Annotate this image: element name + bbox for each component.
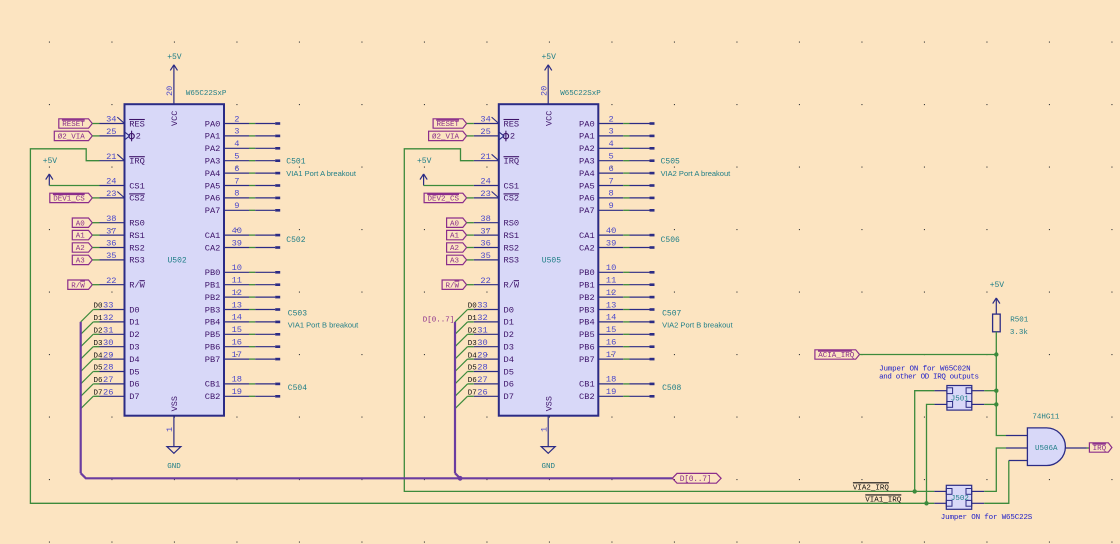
pin 3 PA1 (U502) bbox=[205, 127, 249, 142]
wire stub CB1 (U505) bbox=[623, 383, 654, 386]
svg-text:37: 37 bbox=[106, 226, 116, 236]
svg-text:D2: D2 bbox=[129, 330, 139, 340]
svg-text:26: 26 bbox=[103, 388, 113, 398]
svg-text:VIA1 Port A breakout: VIA1 Port A breakout bbox=[286, 169, 357, 178]
pin 29 D4 (U505) bbox=[474, 350, 514, 365]
pin 40 CA1 (U505) bbox=[579, 226, 623, 241]
svg-text:ACIA_IRQ: ACIA_IRQ bbox=[818, 352, 855, 360]
pin 9 PA7 (U502) bbox=[205, 201, 249, 216]
svg-text:10: 10 bbox=[606, 263, 616, 273]
wire J502 top-right up to gate input 2 bbox=[984, 448, 1006, 491]
svg-text:+5V: +5V bbox=[990, 281, 1005, 290]
svg-text:D2: D2 bbox=[94, 328, 103, 336]
svg-text:D6: D6 bbox=[468, 377, 478, 385]
wire D4 (U502) bbox=[93, 358, 99, 360]
svg-text:IRQ: IRQ bbox=[1093, 445, 1107, 453]
svg-text:U502: U502 bbox=[168, 257, 187, 266]
pin 35 RS3 (U502) bbox=[100, 251, 145, 266]
pin 39 CA2 (U502) bbox=[205, 238, 249, 253]
svg-text:PA5: PA5 bbox=[579, 181, 595, 191]
svg-text:RS2: RS2 bbox=[504, 243, 520, 253]
svg-text:PB6: PB6 bbox=[205, 343, 221, 353]
svg-text:PB0: PB0 bbox=[205, 268, 221, 278]
wire stub PB2 (U502) bbox=[249, 296, 280, 299]
wire RESET to RES (U505) bbox=[467, 123, 474, 125]
svg-text:+5V: +5V bbox=[43, 157, 58, 166]
svg-text:7: 7 bbox=[234, 176, 239, 186]
svg-text:CA1: CA1 bbox=[205, 231, 221, 241]
svg-text:DEV1_CS: DEV1_CS bbox=[53, 196, 85, 204]
wire stub PA5 (U502) bbox=[249, 184, 280, 187]
wire stub PB1 (U502) bbox=[249, 283, 280, 286]
power +5V at CS1 (U502) bbox=[48, 174, 50, 186]
bus entry D2 (U502) bbox=[81, 334, 94, 346]
svg-text:D3: D3 bbox=[129, 343, 139, 353]
svg-text:22: 22 bbox=[106, 276, 116, 286]
pin 29 D4 (U502) bbox=[100, 350, 140, 365]
svg-text:2: 2 bbox=[510, 132, 515, 142]
svg-text:24: 24 bbox=[480, 177, 490, 187]
wire stub CA1 (U502) bbox=[249, 234, 280, 237]
svg-text:D0: D0 bbox=[504, 305, 514, 315]
wire A0 to RS0 (U505) bbox=[467, 222, 474, 224]
wire stub PB6 (U502) bbox=[249, 345, 280, 348]
wire stub PA4 (U502) bbox=[249, 172, 280, 175]
pin 8 PA6 (U502) bbox=[205, 189, 249, 204]
pin 21 IRQ (U505) bbox=[474, 152, 519, 167]
svg-text:VIA2_IRQ: VIA2_IRQ bbox=[853, 484, 890, 492]
jumper J501 body bbox=[947, 386, 972, 411]
svg-text:28: 28 bbox=[103, 363, 113, 373]
global label IRQ bbox=[1089, 443, 1112, 452]
pin 34 RES (U505) bbox=[474, 115, 519, 130]
svg-text:A3: A3 bbox=[450, 258, 460, 266]
svg-text:13: 13 bbox=[232, 300, 242, 310]
svg-text:21: 21 bbox=[480, 152, 490, 162]
svg-text:VCC: VCC bbox=[545, 111, 555, 126]
wire D5 (U505) bbox=[468, 371, 474, 373]
svg-text:D[0..7]: D[0..7] bbox=[423, 317, 455, 325]
wire stub PB3 (U505) bbox=[623, 308, 654, 311]
wire stub CA2 (U502) bbox=[249, 246, 280, 249]
svg-text:39: 39 bbox=[606, 238, 616, 248]
svg-text:PB5: PB5 bbox=[579, 330, 595, 340]
svg-text:PB6: PB6 bbox=[579, 343, 595, 353]
power +5V above U505 bbox=[547, 64, 549, 66]
power +5V above U502 bbox=[173, 64, 175, 66]
pin 24 CS1 (U505) bbox=[474, 177, 519, 192]
svg-text:GND: GND bbox=[167, 463, 181, 471]
svg-text:39: 39 bbox=[232, 238, 242, 248]
pin 11 PB1 (U505) bbox=[579, 276, 623, 291]
pin 35 RS3 (U505) bbox=[474, 251, 519, 266]
bus entry D4 (U502) bbox=[81, 359, 94, 371]
pin 16 PB6 (U505) bbox=[579, 338, 623, 353]
bus entry D5 (U505) bbox=[455, 372, 468, 384]
svg-text:D1: D1 bbox=[504, 318, 514, 328]
pin 25 &#966;2 (U505) bbox=[474, 127, 515, 142]
svg-text:PB4: PB4 bbox=[205, 318, 221, 328]
svg-text:VIA2 Port B breakout: VIA2 Port B breakout bbox=[662, 320, 733, 329]
svg-text:CB2: CB2 bbox=[205, 392, 221, 402]
svg-text:RES: RES bbox=[504, 119, 520, 129]
svg-text:DEV2_CS: DEV2_CS bbox=[428, 196, 460, 204]
svg-text:PB4: PB4 bbox=[579, 318, 595, 328]
pin 5 PA3 (U505) bbox=[579, 152, 623, 167]
svg-text:C503: C503 bbox=[288, 310, 307, 319]
svg-text:D7: D7 bbox=[504, 392, 514, 402]
global label A0 (U502) bbox=[72, 218, 92, 227]
svg-text:PB7: PB7 bbox=[205, 355, 221, 365]
wire D7 (U505) bbox=[468, 395, 474, 397]
bus entry D4 (U505) bbox=[455, 359, 468, 371]
svg-text:18: 18 bbox=[606, 375, 616, 385]
wire D2 (U505) bbox=[468, 333, 474, 335]
wire A2 to RS2 (U502) bbox=[92, 247, 99, 249]
svg-text:6: 6 bbox=[234, 164, 239, 174]
pin 31 D2 (U502) bbox=[100, 326, 140, 341]
power +5V at CS1 (U505) bbox=[423, 174, 425, 186]
power +5V above R501 bbox=[995, 298, 997, 314]
svg-text:D5: D5 bbox=[468, 365, 478, 373]
svg-text:PA0: PA0 bbox=[205, 119, 221, 129]
svg-text:19: 19 bbox=[606, 387, 616, 397]
pin 39 CA2 (U505) bbox=[579, 238, 623, 253]
svg-text:U505: U505 bbox=[542, 257, 561, 266]
svg-text:30: 30 bbox=[477, 338, 487, 348]
svg-text:1: 1 bbox=[539, 427, 549, 432]
pin 1 VSS (U502) bbox=[173, 416, 175, 447]
wire stub PB5 (U505) bbox=[623, 333, 654, 336]
wire A3 to RS3 (U502) bbox=[92, 259, 99, 261]
pin 34 RES (U502) bbox=[100, 115, 145, 130]
svg-text:18: 18 bbox=[232, 375, 242, 385]
svg-text:74HC11: 74HC11 bbox=[1032, 413, 1060, 421]
wire stub CA2 (U505) bbox=[623, 246, 654, 249]
junction VIA2_IRQ bbox=[913, 489, 917, 493]
wire stub PB7 (U505) bbox=[623, 358, 654, 361]
pin 28 D5 (U502) bbox=[100, 363, 140, 378]
svg-text:D1: D1 bbox=[468, 315, 478, 323]
wire stub PB6 (U505) bbox=[623, 345, 654, 348]
pin 37 RS1 (U505) bbox=[474, 226, 519, 241]
svg-text:29: 29 bbox=[477, 350, 487, 360]
wire J501 top-right to rail bbox=[984, 390, 996, 392]
svg-text:RESET: RESET bbox=[437, 121, 460, 129]
svg-text:RS0: RS0 bbox=[129, 219, 145, 229]
svg-text:C506: C506 bbox=[661, 236, 680, 245]
pin 30 D3 (U505) bbox=[474, 338, 514, 353]
wire J501 top-left down to VIA2_IRQ bbox=[915, 391, 935, 492]
pin 33 D0 (U505) bbox=[474, 301, 514, 316]
svg-text:3.3k: 3.3k bbox=[1010, 329, 1029, 337]
wire RESET to RES (U502) bbox=[92, 123, 99, 125]
pin 31 D2 (U505) bbox=[474, 326, 514, 341]
pin 4 PA2 (U505) bbox=[579, 139, 623, 154]
wire stub PA0 (U505) bbox=[623, 122, 654, 125]
svg-text:27: 27 bbox=[103, 375, 113, 385]
svg-text:D2: D2 bbox=[504, 330, 514, 340]
svg-text:RES: RES bbox=[129, 119, 145, 129]
svg-text:5: 5 bbox=[234, 152, 239, 162]
svg-text:PB3: PB3 bbox=[579, 305, 595, 315]
svg-text:D4: D4 bbox=[94, 352, 104, 360]
wire stub PA2 (U505) bbox=[623, 147, 654, 150]
svg-text:VSS: VSS bbox=[545, 396, 555, 411]
svg-text:+5V: +5V bbox=[542, 53, 557, 62]
pin 10 PB0 (U505) bbox=[579, 263, 623, 278]
svg-text:D3: D3 bbox=[468, 340, 478, 348]
svg-text:A2: A2 bbox=[76, 245, 85, 253]
svg-text:4: 4 bbox=[608, 139, 613, 149]
pin 32 D1 (U502) bbox=[100, 313, 140, 328]
svg-text:32: 32 bbox=[477, 313, 487, 323]
global label A0 (U505) bbox=[447, 218, 467, 227]
wire stub PA4 (U505) bbox=[623, 172, 654, 175]
svg-text:D5: D5 bbox=[504, 367, 514, 377]
junction J501 top-right bbox=[994, 389, 998, 393]
pin 25 &#966;2 (U502) bbox=[100, 127, 141, 142]
svg-text:D4: D4 bbox=[468, 352, 478, 360]
bus entry D0 (U505) bbox=[455, 310, 468, 322]
wire stub PA1 (U502) bbox=[249, 135, 280, 138]
pin 1 VSS (U505) bbox=[547, 416, 549, 447]
svg-text:38: 38 bbox=[106, 214, 116, 224]
svg-text:C504: C504 bbox=[288, 384, 307, 393]
pin 7 PA5 (U502) bbox=[205, 176, 249, 191]
pin U506A input 2 bbox=[1006, 447, 1027, 449]
svg-text:D2: D2 bbox=[468, 328, 477, 336]
pin 36 RS2 (U505) bbox=[474, 239, 519, 254]
svg-text:2: 2 bbox=[136, 132, 141, 142]
junction ACIA_IRQ/rail bbox=[994, 352, 998, 356]
wire stub CB2 (U505) bbox=[623, 395, 654, 398]
svg-text:RS0: RS0 bbox=[504, 219, 520, 229]
bus entry D1 (U502) bbox=[81, 322, 94, 334]
svg-text:35: 35 bbox=[106, 251, 116, 261]
svg-text:R/W: R/W bbox=[504, 281, 520, 291]
svg-text:C508: C508 bbox=[662, 384, 681, 393]
bus entry D3 (U505) bbox=[455, 347, 468, 359]
svg-text:RS1: RS1 bbox=[504, 231, 520, 241]
svg-text:3: 3 bbox=[234, 127, 239, 137]
global label R/W (U502) bbox=[68, 280, 93, 289]
wire R/W label to pin (U502) bbox=[92, 284, 99, 286]
svg-text:9: 9 bbox=[608, 201, 613, 211]
svg-text:5: 5 bbox=[608, 152, 613, 162]
wire D4 (U505) bbox=[468, 358, 474, 360]
svg-text:33: 33 bbox=[477, 301, 487, 311]
svg-text:D6: D6 bbox=[94, 377, 104, 385]
global label A3 (U505) bbox=[447, 255, 467, 264]
wire D5 (U502) bbox=[93, 371, 99, 373]
pin J501 bottom-left bbox=[934, 403, 947, 405]
svg-text:17: 17 bbox=[606, 350, 616, 360]
svg-text:PA2: PA2 bbox=[205, 144, 221, 154]
wire D3 (U502) bbox=[93, 346, 99, 348]
svg-text:D4: D4 bbox=[504, 355, 514, 365]
svg-text:36: 36 bbox=[106, 239, 116, 249]
pin 37 RS1 (U502) bbox=[100, 226, 145, 241]
svg-text:PA0: PA0 bbox=[579, 119, 595, 129]
wire stub PA5 (U505) bbox=[623, 184, 654, 187]
bus entry D5 (U502) bbox=[81, 372, 94, 384]
wire stub CA1 (U505) bbox=[623, 234, 654, 237]
wire stub PB0 (U502) bbox=[249, 271, 280, 274]
wire D6 (U505) bbox=[468, 383, 474, 385]
svg-text:A2: A2 bbox=[450, 245, 459, 253]
wire D1 (U505) bbox=[468, 321, 474, 323]
global label RESET (U505) bbox=[433, 119, 467, 128]
wire stub PB5 (U502) bbox=[249, 333, 280, 336]
svg-text:PA5: PA5 bbox=[205, 181, 221, 191]
svg-text:PB1: PB1 bbox=[205, 281, 221, 291]
pin 13 PB3 (U502) bbox=[205, 300, 249, 315]
svg-text:D7: D7 bbox=[129, 392, 139, 402]
svg-text:RS3: RS3 bbox=[504, 256, 520, 266]
svg-text:D5: D5 bbox=[129, 367, 139, 377]
wire O2_VIA to phi2 (U505) bbox=[467, 135, 474, 137]
svg-text:R/W: R/W bbox=[71, 282, 85, 290]
svg-text:28: 28 bbox=[477, 363, 487, 373]
svg-text:PA6: PA6 bbox=[205, 194, 221, 204]
bus entry D3 (U502) bbox=[81, 347, 94, 359]
svg-text:D6: D6 bbox=[129, 380, 139, 390]
op IC U505 W65C22SxP body bbox=[499, 104, 599, 416]
svg-text:D7: D7 bbox=[468, 390, 477, 398]
pin 18 CB1 (U502) bbox=[205, 375, 249, 390]
global label O2_VIA (U502) bbox=[54, 131, 92, 140]
bus vertical (U505) bbox=[454, 322, 456, 473]
svg-text:PA7: PA7 bbox=[205, 206, 221, 216]
bus horizontal D[0..7] bbox=[81, 473, 673, 478]
svg-text:RS1: RS1 bbox=[129, 231, 145, 241]
pin 26 D7 (U505) bbox=[474, 388, 514, 403]
pin 23 CS2 (U502) bbox=[100, 189, 145, 204]
wire stub CB1 (U502) bbox=[249, 383, 280, 386]
svg-text:2: 2 bbox=[234, 114, 239, 124]
svg-text:30: 30 bbox=[103, 338, 113, 348]
pin 32 D1 (U505) bbox=[474, 313, 514, 328]
svg-text:PB2: PB2 bbox=[205, 293, 221, 303]
svg-text:VSS: VSS bbox=[170, 396, 180, 411]
svg-text:17: 17 bbox=[232, 350, 242, 360]
pin J502 bottom-left bbox=[934, 502, 946, 504]
svg-text:C507: C507 bbox=[662, 310, 681, 319]
pin U506A output bbox=[1065, 447, 1087, 449]
pin 23 CS2 (U505) bbox=[474, 189, 519, 204]
wire A3 to RS3 (U505) bbox=[467, 259, 474, 261]
svg-text:PB2: PB2 bbox=[579, 293, 595, 303]
global label O2_VIA (U505) bbox=[429, 131, 467, 140]
svg-text:19: 19 bbox=[232, 387, 242, 397]
svg-text:1: 1 bbox=[165, 427, 175, 432]
pin 16 PB6 (U502) bbox=[205, 338, 249, 353]
resistor R501 bbox=[993, 314, 1001, 332]
wire D7 (U502) bbox=[93, 395, 99, 397]
svg-text:A0: A0 bbox=[76, 220, 86, 228]
bus entry D7 (U505) bbox=[455, 396, 468, 408]
wire J502 bottom-right up to gate input 3 bbox=[984, 461, 1009, 504]
pin 4 PA2 (U502) bbox=[205, 139, 249, 154]
wire stub PA1 (U505) bbox=[623, 135, 654, 138]
wire J501 bottom-right to rail bbox=[984, 403, 996, 405]
svg-text:CB1: CB1 bbox=[205, 380, 221, 390]
pin 26 D7 (U502) bbox=[100, 388, 140, 403]
svg-text:D7: D7 bbox=[94, 390, 103, 398]
svg-text:16: 16 bbox=[232, 338, 242, 348]
wire D6 (U502) bbox=[93, 383, 99, 385]
pin 14 PB4 (U505) bbox=[579, 313, 623, 328]
svg-text:34: 34 bbox=[480, 115, 490, 125]
pin 20 VCC (U502) bbox=[173, 65, 175, 104]
wire DEV1_CS to CS2 (U502) bbox=[92, 197, 99, 199]
svg-text:CS1: CS1 bbox=[129, 181, 145, 191]
global label A1 (U505) bbox=[447, 230, 467, 239]
svg-text:Ø2_VIA: Ø2_VIA bbox=[58, 133, 86, 142]
svg-text:+5V: +5V bbox=[417, 157, 432, 166]
svg-text:33: 33 bbox=[103, 301, 113, 311]
svg-text:15: 15 bbox=[606, 325, 616, 335]
svg-text:PA4: PA4 bbox=[579, 169, 595, 179]
global label D[0..7] bbox=[672, 473, 721, 483]
svg-text:D0: D0 bbox=[94, 303, 104, 311]
global label DEV2_CS (U505) bbox=[424, 193, 467, 202]
svg-text:D0: D0 bbox=[468, 303, 478, 311]
wire stub PB7 (U502) bbox=[249, 358, 280, 361]
svg-text:PA1: PA1 bbox=[579, 132, 595, 142]
svg-text:11: 11 bbox=[606, 276, 616, 286]
svg-text:14: 14 bbox=[232, 313, 242, 323]
and-gate U506A body bbox=[1027, 428, 1065, 466]
svg-text:A1: A1 bbox=[76, 233, 86, 241]
wire R501 to rail bbox=[995, 332, 997, 355]
svg-text:R/W: R/W bbox=[129, 281, 145, 291]
svg-text:4: 4 bbox=[234, 139, 239, 149]
svg-text:PB0: PB0 bbox=[579, 268, 595, 278]
global label A1 (U502) bbox=[72, 230, 92, 239]
svg-text:24: 24 bbox=[106, 177, 116, 187]
wire stub PB3 (U502) bbox=[249, 308, 280, 311]
pin 24 CS1 (U502) bbox=[100, 177, 145, 192]
svg-text:IRQ: IRQ bbox=[129, 157, 145, 167]
global label A3 (U502) bbox=[72, 255, 92, 264]
svg-text:22: 22 bbox=[480, 276, 490, 286]
wire stub PA7 (U502) bbox=[249, 209, 280, 212]
wire stub PA2 (U502) bbox=[249, 147, 280, 150]
wire A1 to RS1 (U505) bbox=[467, 234, 474, 236]
bus entry D6 (U502) bbox=[81, 384, 94, 396]
svg-text:12: 12 bbox=[606, 288, 616, 298]
svg-text:14: 14 bbox=[606, 313, 616, 323]
svg-text:PA7: PA7 bbox=[579, 206, 595, 216]
wire A0 to RS0 (U502) bbox=[92, 222, 99, 224]
svg-text:35: 35 bbox=[480, 251, 490, 261]
svg-text:PA1: PA1 bbox=[205, 132, 221, 142]
svg-text:D1: D1 bbox=[129, 318, 139, 328]
bus junction bbox=[458, 476, 463, 481]
wire stub PB2 (U505) bbox=[623, 296, 654, 299]
global label R/W (U505) bbox=[442, 280, 467, 289]
pin 11 PB1 (U502) bbox=[205, 276, 249, 291]
pin 21 IRQ (U502) bbox=[100, 152, 145, 167]
bus entry D1 (U505) bbox=[455, 322, 468, 334]
pin 19 CB2 (U505) bbox=[579, 387, 623, 402]
svg-text:D[0..7]: D[0..7] bbox=[680, 475, 712, 484]
svg-text:16: 16 bbox=[606, 338, 616, 348]
pin 38 RS0 (U505) bbox=[474, 214, 519, 229]
pin 5 PA3 (U502) bbox=[205, 152, 249, 167]
